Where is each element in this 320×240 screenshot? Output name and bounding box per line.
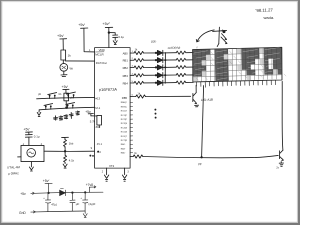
LED row 1: pin stub RB0 <box>123 51 134 55</box>
svg-text:+5v: +5v <box>20 192 26 196</box>
svg-text:RΒ1: RΒ1 <box>123 59 129 63</box>
svg-text:RA5·: RA5· <box>121 152 126 155</box>
resistor R4 1kb (pullup on clock line) <box>62 137 69 139</box>
wire R2 to wire B <box>65 101 67 108</box>
annotation scribble (kanji) <box>54 111 80 120</box>
capacitor C1 0.1u <box>113 35 118 37</box>
pushbutton S4 <box>66 103 75 109</box>
svg-text:p16F873A: p16F873A <box>99 87 117 92</box>
svg-text:AΒ0: AΒ0 <box>123 51 129 55</box>
+5V feed marker above display <box>220 28 225 32</box>
wire R3 to pin 12 <box>98 125 100 127</box>
LED D11 <box>157 58 162 63</box>
svg-text:RA2·: RA2· <box>121 143 126 146</box>
wire RA7/OSC row to IC <box>65 60 94 62</box>
power +5V P2 (MCLR pullup, x84) <box>78 23 85 27</box>
node: display column drop junction <box>201 157 202 158</box>
PSU main wire <box>34 192 103 193</box>
svg-text:RC0(T: RC0(T <box>121 111 128 113</box>
svg-text:RΒ4: RΒ4 <box>123 81 129 85</box>
Q1 collector to display <box>195 85 197 92</box>
svg-text:b1: b1 <box>59 92 62 96</box>
svg-text:RΒ2: RΒ2 <box>123 66 129 70</box>
ground at wire B left end <box>37 110 41 117</box>
LED row 2: pin stub RB1 <box>123 58 134 62</box>
pushbutton wire B (to RA1) <box>39 107 94 110</box>
resistor R14 <box>134 81 144 84</box>
svg-text:’98.11.27: ’98.11.27 <box>255 7 273 13</box>
resistor R10 1k <box>134 51 144 54</box>
wire + resistor R20 <box>163 52 176 54</box>
display half-lit cells <box>192 47 278 82</box>
svg-text:47μ): 47μ) <box>51 202 57 206</box>
power +5V P3 (VDD, x109) <box>102 22 110 26</box>
PSU bottom wire <box>36 210 86 213</box>
resistor R5 4.1k (to ground) <box>64 151 67 163</box>
svg-text:RB7(C: RB7(C <box>121 106 128 108</box>
svg-text:X′TAL-4M: X′TAL-4M <box>7 165 21 169</box>
LED row 4: pin stub RB3 <box>123 73 134 77</box>
resistor R1 1k (box) <box>61 50 66 60</box>
svg-text:+5v′: +5v′ <box>43 179 50 183</box>
LED D12 <box>157 65 162 70</box>
svg-text:RA3·: RA3· <box>121 147 126 150</box>
common cathode bus wire <box>164 53 166 84</box>
svg-text:+5v′: +5v′ <box>62 85 69 89</box>
svg-text:+5v′: +5v′ <box>57 34 64 38</box>
svg-text:1k: 1k <box>68 54 72 58</box>
pushbutton S1 <box>48 93 57 99</box>
svg-text:μ·3MHz: μ·3MHz <box>8 171 19 175</box>
PSU: +5V input arrow <box>20 192 26 196</box>
ground under C1 <box>113 38 117 45</box>
wire MCLR: +5V down to pin 1 <box>84 28 95 52</box>
label 2DE <box>151 39 157 43</box>
svg-text:MCLR: MCLR <box>95 52 104 56</box>
wire node to RA7 row <box>62 60 64 63</box>
display scribble texture <box>194 47 281 80</box>
svg-text:μk′: μk′ <box>70 96 74 100</box>
scan frame border <box>0 0 300 1</box>
pushbutton wire A (to pin 13) <box>37 97 95 98</box>
svg-text:Wt: Wt <box>70 67 74 71</box>
diode D2 <box>60 190 66 196</box>
svg-text:5.7k: 5.7k <box>90 119 96 123</box>
node J2 <box>72 192 74 194</box>
power +5V P7 (PSU tap) <box>43 179 50 183</box>
svg-text:RC3(S: RC3(S <box>121 123 128 125</box>
power +5V P5 (near IC, 5.7k) <box>85 110 91 114</box>
power +5V P4 (pullup chain B) <box>62 85 69 89</box>
+7V8 output tap <box>89 186 95 193</box>
svg-text:0.1μ: 0.1μ <box>118 35 124 39</box>
svg-text:μF: μF <box>76 202 80 206</box>
RC pin stubs <box>130 102 133 153</box>
svg-text:#13: #13 <box>95 96 100 100</box>
resistor R22 <box>176 66 193 69</box>
wire to LED <box>144 52 157 54</box>
svg-text:GnD: GnD <box>19 211 26 215</box>
arc annotation arrow to display <box>197 30 214 42</box>
svg-text:+5v′: +5v′ <box>24 128 31 132</box>
row 6 RB5 drive: pin stub <box>122 95 134 100</box>
display lit-cell shading <box>192 47 282 82</box>
resistor R13 <box>134 74 144 77</box>
Q1 emitter ground scribble <box>195 105 199 107</box>
resistor R12 <box>134 66 144 69</box>
wire C2 to crystal module <box>28 137 30 145</box>
crystal output wire to IC RA4 <box>44 150 95 152</box>
svg-text:+5v′′: +5v′′ <box>102 22 110 26</box>
arrow strokes <box>222 34 227 40</box>
svg-text:RC5(S: RC5(S <box>121 132 128 134</box>
power +5V P6 (crystal cap) <box>24 128 31 132</box>
capacitor C2 0.1u <box>25 135 32 138</box>
MCLR overbar <box>96 51 105 53</box>
LED D14 <box>157 80 162 85</box>
svg-text:RC2(P: RC2(P <box>121 119 128 121</box>
IC bottom pin stubs + grounds <box>104 168 108 181</box>
display pin ticks <box>196 80 275 87</box>
ellipsis dots <box>155 109 156 110</box>
capacitor C5 47uF <box>83 192 88 211</box>
wire to transistor Q1 <box>145 95 190 97</box>
svg-text:RΒ3: RΒ3 <box>123 74 129 78</box>
svg-text:RA7/Osc: RA7/Osc <box>96 61 108 65</box>
wire P1 down <box>62 39 64 50</box>
resistor R2 4.7k (box) <box>65 90 67 94</box>
IC U1 PIC16F873 body <box>95 48 131 169</box>
Q2 collector from display right edge <box>281 81 284 150</box>
resistor R3 5.7k (box on IC edge) <box>97 115 102 125</box>
Q2 emitter ground <box>279 162 283 167</box>
svg-text:2DE·: 2DE· <box>151 39 157 43</box>
svg-text:+7v8: +7v8 <box>86 183 93 187</box>
svg-text:±LED(Mμ): ±LED(Mμ) <box>167 45 180 50</box>
resistor R24 <box>176 81 193 84</box>
crystal module X1 <box>21 145 44 161</box>
resistor R23 <box>176 73 193 76</box>
wire VDD down <box>108 28 110 48</box>
resistor R15 1k <box>136 95 146 98</box>
label L2D-A1B <box>201 98 213 102</box>
display grid lines <box>193 48 282 82</box>
capacitor C3 47u <box>45 193 50 212</box>
svg-text:RC4(S: RC4(S <box>121 127 128 129</box>
svg-text:RB6(C: RB6(C <box>121 102 128 104</box>
ground under R5 <box>63 164 67 168</box>
svg-text:RC7(R: RC7(R <box>121 140 128 142</box>
svg-text:RΒ5: RΒ5 <box>122 96 128 100</box>
display module DS1 (dot matrix) <box>193 47 282 82</box>
crystal pin bottom + ground <box>29 162 33 171</box>
resistor R11 <box>134 59 144 62</box>
svg-text:RC6(T: RC6(T <box>121 136 128 138</box>
LED D10 <box>157 50 162 55</box>
crystal pin left <box>18 156 21 158</box>
GND input arrow <box>19 211 26 215</box>
date annotation '98.11.27 <box>255 7 274 19</box>
svg-text:XT2: XT2 <box>109 164 115 168</box>
svg-text:wada.: wada. <box>264 15 275 20</box>
LED D1 (circle) <box>60 63 68 71</box>
resistor R21 <box>176 58 193 61</box>
pushbutton S2 <box>66 92 75 98</box>
capacitor C4 0.1uF <box>70 193 75 212</box>
LED row 5: pin stub RB4 <box>123 81 134 85</box>
svg-text:RC1(P: RC1(P <box>121 115 128 117</box>
LED D13 <box>157 73 162 78</box>
RC pin label stack <box>121 102 128 154</box>
pushbutton S3 <box>44 104 53 110</box>
svg-text:+5v′: +5v′ <box>78 23 85 27</box>
svg-text:4.1k: 4.1k <box>69 158 75 162</box>
label X'TAL-4M <box>7 165 21 175</box>
label LED(Ma) <box>167 45 197 50</box>
svg-text:0.1μ: 0.1μ <box>34 135 40 139</box>
svg-text:1kb: 1kb <box>69 141 74 145</box>
svg-text:L2D·A1B: L2D·A1B <box>201 98 213 102</box>
svg-text:M-1: M-1 <box>95 106 100 110</box>
ground at PSU bottom <box>83 211 87 218</box>
power +5V P1 (LED chain, x63) <box>57 34 64 38</box>
transistor Q1 <box>193 93 197 104</box>
wire display bottom to serial wire <box>202 86 204 158</box>
serial out wire: pin stub <box>130 156 133 158</box>
svg-text:(4μ)F: (4μ)F <box>88 202 95 206</box>
svg-text:#12: #12 <box>96 125 101 129</box>
resistor R16 <box>133 155 143 158</box>
ground bar under LED <box>61 71 67 76</box>
transistor Q2 <box>280 150 284 160</box>
label pp <box>198 162 202 166</box>
wire cap branch <box>109 33 115 35</box>
LED row 3: pin stub RB2 <box>123 66 134 70</box>
node J3 <box>84 192 86 194</box>
svg-text:·Pc.1: ·Pc.1 <box>96 143 102 146</box>
svg-text:+5v: +5v <box>85 110 91 114</box>
long wire to transistor Q2 <box>143 155 278 157</box>
svg-text:pb: pb <box>38 92 41 96</box>
